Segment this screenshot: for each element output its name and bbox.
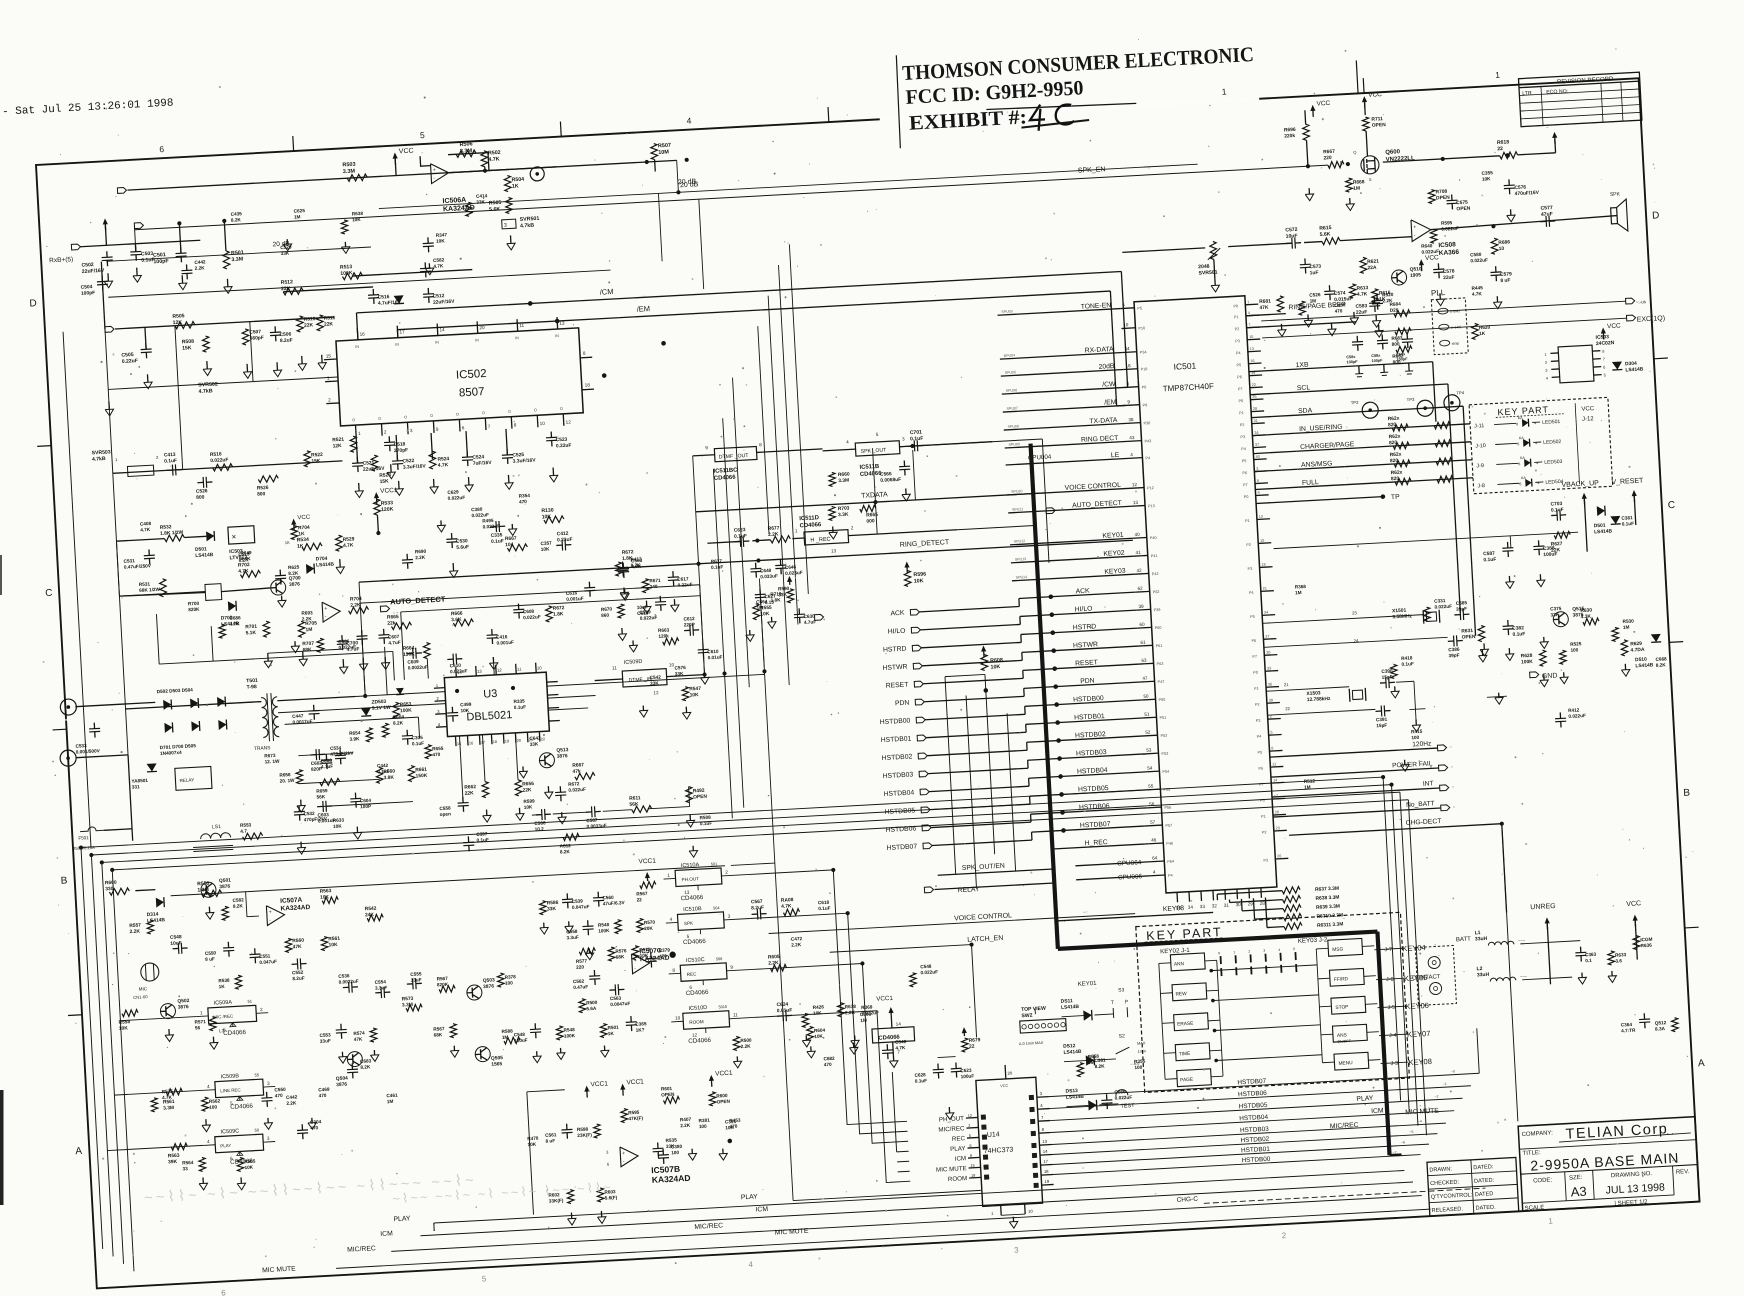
svg-text:1M: 1M [1353, 186, 1360, 192]
svg-text:7: 7 [1603, 357, 1605, 361]
svg-text:15K: 15K [182, 345, 192, 352]
svg-text:R560: R560 [292, 938, 304, 945]
svg-text:47K(F): 47K(F) [628, 1115, 643, 1121]
svg-text:4: 4 [1534, 421, 1536, 425]
svg-text:P39: P39 [1154, 608, 1161, 612]
svg-text:R599: R599 [523, 798, 535, 804]
svg-text:R659: R659 [316, 788, 328, 794]
svg-text:24: 24 [1264, 611, 1268, 615]
svg-text:47K: 47K [1259, 305, 1269, 312]
svg-text:68K: 68K [616, 954, 625, 959]
svg-text:T: T [1111, 1000, 1114, 1006]
svg-text:470: 470 [432, 752, 440, 757]
svg-text:J-12: J-12 [1582, 416, 1595, 423]
svg-text:ZD503: ZD503 [371, 699, 386, 706]
svg-text:C574: C574 [1334, 290, 1346, 297]
svg-text:VCC: VCC [1581, 406, 1595, 413]
svg-text:C624: C624 [776, 1002, 788, 1009]
svg-text:C575: C575 [1456, 200, 1468, 207]
svg-text:10K: 10K [527, 1142, 536, 1147]
svg-text:~: ~ [1372, 974, 1374, 978]
svg-text:KEY07: KEY07 [1407, 1029, 1431, 1039]
svg-text:3.3uF: 3.3uF [566, 935, 579, 941]
svg-text:P4: P4 [1145, 456, 1150, 460]
svg-text:R705: R705 [305, 620, 317, 627]
svg-text:1uF: 1uF [1310, 270, 1319, 276]
svg-text:P2: P2 [1262, 830, 1267, 834]
svg-text:9.1V 1W: 9.1V 1W [372, 705, 391, 712]
svg-text:SPU13: SPU13 [1015, 557, 1027, 562]
svg-text:~2: ~2 [1434, 1095, 1438, 1099]
svg-text:16: 16 [469, 741, 473, 745]
svg-text:10M: 10M [658, 149, 669, 156]
svg-text:C618: C618 [818, 900, 830, 906]
svg-text:0.022uF: 0.022uF [1568, 713, 1586, 719]
svg-text:1K: 1K [285, 540, 290, 545]
svg-text:1.8K 1/2W: 1.8K 1/2W [160, 530, 184, 537]
svg-text:B: B [60, 875, 68, 886]
svg-text:CD4066: CD4066 [230, 1103, 254, 1111]
svg-text:X1503: X1503 [1306, 690, 1321, 697]
svg-text:15: 15 [326, 353, 332, 358]
svg-text:15: 15 [1260, 539, 1264, 543]
svg-text:3: 3 [1256, 467, 1258, 471]
svg-text:6: 6 [969, 1144, 971, 1148]
svg-text:C630: C630 [803, 614, 815, 620]
svg-text:C642: C642 [529, 735, 541, 741]
svg-text:R611: R611 [629, 795, 641, 802]
svg-text:47K: 47K [354, 1037, 363, 1042]
svg-text:0.022uF: 0.022uF [1434, 604, 1452, 610]
svg-text:C582: C582 [232, 897, 244, 903]
svg-text:C564: C564 [756, 599, 768, 605]
svg-text:5.6A: 5.6A [586, 1006, 597, 1012]
svg-text:J-10: J-10 [1475, 443, 1486, 450]
svg-text:SPU14: SPU14 [1016, 575, 1028, 580]
svg-text:5010: 5010 [718, 1005, 727, 1009]
svg-text:8.2uF: 8.2uF [292, 976, 305, 982]
svg-text:8.2K: 8.2K [560, 849, 571, 855]
svg-text:508: 508 [716, 957, 723, 961]
svg-text:100pF: 100pF [1346, 360, 1358, 365]
svg-text:37: 37 [1255, 443, 1259, 447]
svg-text:R426: R426 [813, 1004, 825, 1010]
svg-text:DBL5021: DBL5021 [466, 709, 512, 723]
svg-text:32: 32 [1212, 903, 1218, 908]
svg-text:220: 220 [576, 964, 584, 969]
svg-text:B: B [1683, 787, 1691, 798]
svg-text:ICM: ICM [955, 1155, 967, 1163]
svg-text:O: O [508, 410, 511, 414]
svg-text:CD4066: CD4066 [223, 1029, 247, 1037]
svg-text:R637: R637 [711, 558, 723, 564]
svg-text:C331: C331 [1434, 598, 1446, 604]
svg-text:10: 10 [540, 421, 546, 426]
svg-text:C587: C587 [1483, 551, 1495, 558]
svg-text:C554: C554 [375, 979, 387, 985]
svg-text:10K: 10K [814, 1034, 823, 1039]
svg-text:23K(F): 23K(F) [577, 1132, 592, 1138]
svg-text:R668: R668 [1353, 179, 1365, 186]
svg-text:U3: U3 [483, 688, 498, 701]
svg-text:SVR501: SVR501 [520, 216, 540, 223]
svg-text:P41: P41 [1151, 554, 1158, 558]
svg-text:O: O [430, 414, 433, 418]
svg-text:30: 30 [1266, 650, 1270, 654]
svg-text:C686: C686 [229, 615, 241, 621]
svg-text:820: 820 [1390, 458, 1399, 464]
svg-text:J-9: J-9 [1476, 463, 1484, 469]
svg-text:4.7K: 4.7K [488, 156, 500, 163]
svg-text:39pF: 39pF [1448, 653, 1459, 659]
svg-text:R701: R701 [245, 624, 257, 631]
svg-text:0.23uF: 0.23uF [557, 537, 573, 544]
svg-text:39K: 39K [168, 1159, 178, 1166]
svg-text:33uH: 33uH [1475, 936, 1488, 943]
svg-text:R640: R640 [1421, 243, 1433, 249]
svg-text:P3: P3 [1256, 719, 1261, 723]
svg-text:ACK: ACK [890, 610, 905, 618]
svg-text:C542: C542 [650, 675, 662, 681]
svg-text:560pF: 560pF [250, 335, 264, 342]
svg-text:VCC: VCC [297, 515, 311, 522]
svg-text:6: 6 [1603, 365, 1605, 369]
svg-text:4.7K: 4.7K [1357, 291, 1368, 298]
svg-text:LS414B: LS414B [1061, 1004, 1080, 1011]
svg-text:C58x: C58x [1396, 352, 1406, 357]
svg-text:R696: R696 [1284, 127, 1296, 134]
svg-text:0.1uF: 0.1uF [412, 741, 425, 747]
svg-text:C548: C548 [514, 1032, 526, 1038]
svg-text:4.7K: 4.7K [238, 568, 249, 575]
svg-text:3876: 3876 [336, 1082, 347, 1089]
svg-text:SPU10: SPU10 [1011, 489, 1023, 494]
svg-text:C472: C472 [791, 936, 803, 942]
svg-text:33K: 33K [476, 199, 485, 204]
svg-text:R590: R590 [778, 586, 790, 592]
svg-text:R679: R679 [969, 1037, 981, 1044]
svg-text:26: 26 [1277, 854, 1281, 858]
svg-text:33K: 33K [281, 251, 290, 256]
svg-text:LS414B: LS414B [1625, 366, 1644, 373]
svg-text:10K: 10K [119, 1025, 129, 1032]
svg-text:REW: REW [1175, 991, 1187, 998]
svg-text:8.2uF: 8.2uF [751, 905, 764, 912]
svg-text:R636: R636 [1640, 943, 1652, 949]
svg-text:42: 42 [1136, 568, 1142, 573]
svg-text:P18: P18 [1141, 367, 1148, 371]
svg-text:LS414B: LS414B [147, 917, 166, 924]
svg-text:KA324AD: KA324AD [652, 1173, 691, 1185]
svg-text:R661: R661 [415, 767, 427, 774]
svg-text:C512: C512 [433, 293, 445, 300]
svg-text:C703: C703 [1550, 501, 1562, 508]
svg-text:TP4: TP4 [1456, 390, 1465, 395]
svg-text:+: + [1413, 224, 1416, 230]
svg-text:~: ~ [1373, 1002, 1375, 1006]
svg-text:220P: 220P [684, 622, 695, 628]
svg-text:8.2uF: 8.2uF [280, 337, 293, 344]
svg-text:P63: P63 [1157, 662, 1164, 666]
svg-text:VCC: VCC [1316, 100, 1330, 108]
svg-text:DS11: DS11 [1061, 998, 1074, 1005]
svg-text:R62x: R62x [1390, 452, 1402, 459]
svg-text:O: O [378, 417, 381, 421]
svg-text:J-4: J-4 [1389, 1033, 1397, 1039]
svg-text:0.023uF: 0.023uF [785, 570, 803, 576]
svg-text:0.1uF: 0.1uF [141, 257, 155, 264]
svg-text:C381: C381 [1621, 515, 1633, 521]
svg-text:Q502: Q502 [177, 998, 190, 1005]
svg-text:1M: 1M [860, 1018, 867, 1023]
svg-text:P0: P0 [1244, 495, 1249, 499]
svg-text:C603: C603 [317, 812, 329, 818]
svg-text:33: 33 [1200, 904, 1206, 909]
svg-text:C648: C648 [760, 568, 772, 574]
svg-text:LED503: LED503 [1544, 459, 1563, 466]
svg-text:OPEN: OPEN [1456, 206, 1471, 213]
svg-text:P57: P57 [1165, 824, 1172, 828]
svg-text:60: 60 [1139, 622, 1145, 627]
svg-text:P4: P4 [1236, 351, 1241, 355]
svg-text:100uF: 100uF [961, 1073, 975, 1079]
svg-text:R596: R596 [913, 571, 926, 578]
svg-text:R508: R508 [699, 815, 711, 821]
svg-text:GND: GND [1542, 672, 1558, 680]
svg-text:41: 41 [1135, 550, 1141, 555]
svg-text:10K: 10K [320, 894, 330, 901]
svg-text:11: 11 [733, 1012, 738, 1017]
svg-text:C558: C558 [439, 806, 451, 812]
svg-text:43: 43 [1129, 435, 1135, 440]
svg-text:16: 16 [1250, 359, 1254, 363]
svg-text:1M: 1M [1295, 590, 1302, 595]
svg-text:0.1uF: 0.1uF [476, 837, 489, 843]
svg-text:4.7K: 4.7K [438, 462, 449, 469]
svg-text:0.022uF: 0.022uF [482, 524, 500, 530]
svg-text:10K: 10K [914, 578, 924, 585]
svg-text:✕: ✕ [231, 535, 236, 541]
svg-text:P4: P4 [1168, 874, 1173, 878]
svg-text:150K: 150K [415, 773, 427, 780]
svg-text:PLAY: PLAY [950, 1145, 966, 1153]
svg-text:2.2K: 2.2K [195, 265, 206, 271]
svg-text:14: 14 [896, 1021, 902, 1026]
svg-text:P9: P9 [1143, 403, 1148, 407]
svg-text:20. 1W: 20. 1W [280, 778, 296, 784]
svg-text:1.3M: 1.3M [197, 887, 209, 894]
svg-text:R62x: R62x [1390, 470, 1402, 477]
svg-text:C305: C305 [411, 735, 423, 741]
svg-text:R672: R672 [568, 781, 580, 787]
svg-text:0.001uF: 0.001uF [566, 596, 584, 602]
svg-text:H _REC: H _REC [810, 537, 830, 544]
svg-text:KEY01: KEY01 [1078, 981, 1098, 988]
svg-text:P0: P0 [1238, 399, 1243, 403]
svg-text:100K: 100K [564, 1033, 576, 1039]
svg-text:3876: 3876 [219, 884, 230, 891]
svg-text:KEY05: KEY05 [1404, 973, 1428, 983]
svg-text:20: 20 [517, 739, 521, 743]
svg-text:2.2K: 2.2K [129, 929, 140, 936]
svg-text:120K: 120K [381, 506, 394, 513]
svg-text:ICM: ICM [755, 1206, 768, 1214]
svg-text:4.7: 4.7 [240, 828, 247, 833]
svg-text:8.3A: 8.3A [1655, 1026, 1666, 1032]
svg-text:IN: IN [515, 336, 519, 340]
svg-text:C573: C573 [1309, 264, 1321, 271]
svg-text:4.7K: 4.7K [781, 903, 792, 910]
svg-text:R666: R666 [451, 611, 463, 618]
svg-text:D: D [29, 298, 37, 309]
svg-text:2.2K: 2.2K [768, 960, 779, 967]
svg-text:C532: C532 [303, 811, 315, 817]
svg-text:0.022uF: 0.022uF [640, 615, 658, 621]
svg-text:R604: R604 [814, 1028, 826, 1034]
svg-text:C625: C625 [294, 208, 306, 214]
svg-text:18: 18 [493, 740, 497, 744]
svg-text:C668: C668 [1655, 656, 1667, 662]
svg-text:20 dB: 20 dB [680, 181, 699, 189]
svg-text:470: 470 [659, 954, 667, 959]
svg-text:R677: R677 [768, 525, 780, 532]
svg-text:P2: P2 [1255, 703, 1260, 707]
svg-text:0.022uF: 0.022uF [471, 512, 489, 518]
svg-text:R563: R563 [168, 1153, 180, 1160]
svg-text:O: O [482, 411, 485, 415]
svg-text:13: 13 [684, 890, 690, 895]
svg-text:+: + [324, 606, 327, 612]
svg-text:4.7uF: 4.7uF [321, 764, 334, 770]
svg-text:9: 9 [1257, 491, 1259, 495]
svg-text:1K: 1K [219, 984, 226, 989]
svg-text:P3: P3 [1235, 339, 1240, 343]
svg-text:R412: R412 [1568, 707, 1580, 713]
svg-text:P1: P1 [1254, 687, 1259, 691]
svg-text:0.023uF: 0.023uF [450, 668, 468, 674]
svg-text:23: 23 [1276, 826, 1280, 830]
svg-text:TP3: TP3 [1407, 397, 1416, 402]
svg-text:31: 31 [1224, 903, 1230, 908]
svg-text:LS414B: LS414B [1594, 528, 1613, 535]
svg-text:8.2K: 8.2K [360, 1064, 371, 1070]
svg-text:12: 12 [566, 419, 572, 424]
svg-text:12: 12 [692, 1032, 698, 1037]
svg-text:R561: R561 [328, 936, 340, 943]
svg-text:C604: C604 [360, 798, 372, 804]
svg-text:R686: R686 [1498, 239, 1510, 246]
svg-text:ICGM: ICGM [1640, 937, 1653, 943]
svg-text:100: 100 [1411, 735, 1419, 740]
svg-text:6: 6 [1516, 422, 1518, 426]
svg-text:ECO NO:: ECO NO: [1546, 89, 1568, 96]
svg-text:KEY08: KEY08 [1408, 1057, 1432, 1067]
svg-text:R378: R378 [504, 974, 516, 980]
svg-text:R681: R681 [1259, 298, 1271, 305]
svg-text:LTR: LTR [1522, 90, 1532, 97]
svg-text:D314: D314 [147, 911, 159, 918]
svg-text:100pF: 100pF [153, 258, 169, 265]
svg-text:1K: 1K [1479, 331, 1486, 336]
svg-text:C375: C375 [1550, 606, 1562, 612]
svg-text:P60: P60 [1155, 626, 1162, 630]
svg-text:CD4066: CD4066 [680, 894, 704, 902]
svg-text:Q503: Q503 [483, 977, 496, 984]
svg-text:OPEN: OPEN [661, 1092, 675, 1098]
svg-text:R567: R567 [433, 1026, 445, 1032]
svg-text:SZE:: SZE: [1569, 1175, 1583, 1182]
svg-text:~6: ~6 [1401, 1140, 1405, 1144]
svg-text:C580: C580 [1470, 252, 1482, 258]
svg-text:180uF: 180uF [514, 1038, 528, 1044]
svg-text:CODE:: CODE: [1533, 1177, 1553, 1184]
svg-text:CD4066: CD4066 [683, 938, 707, 946]
svg-text:+: + [433, 167, 436, 173]
svg-text:1K: 1K [297, 543, 304, 549]
svg-text:34: 34 [1188, 905, 1194, 910]
svg-text:100: 100 [671, 1150, 679, 1155]
svg-text:13: 13 [831, 548, 837, 553]
svg-text:C522: C522 [402, 458, 414, 465]
svg-text:LS414B: LS414B [316, 562, 335, 569]
svg-text:0.01uF: 0.01uF [777, 1007, 793, 1014]
svg-text:10K: 10K [542, 514, 552, 521]
svg-text:O: O [534, 408, 537, 412]
svg-text:KA: KA [1518, 416, 1524, 420]
svg-text:R656: R656 [522, 781, 534, 788]
svg-text:PH.OUT: PH.OUT [681, 876, 699, 882]
svg-text:0.22uF: 0.22uF [556, 443, 572, 450]
svg-text:4.7K: 4.7K [140, 527, 151, 533]
svg-text:1.8K: 1.8K [553, 611, 564, 618]
svg-text:R535: R535 [665, 1137, 677, 1143]
svg-text:ON/OFF: ON/OFF [1337, 1039, 1352, 1044]
svg-text:C583: C583 [1355, 303, 1367, 310]
svg-text:C388: C388 [1543, 545, 1555, 552]
svg-text:SPU08: SPU08 [1007, 424, 1019, 429]
svg-text:SPU07: SPU07 [1007, 406, 1019, 411]
svg-text:P4: P4 [1257, 735, 1262, 739]
svg-text:R562: R562 [209, 1098, 221, 1104]
svg-text:0.01uF: 0.01uF [707, 654, 722, 660]
svg-text:9: 9 [970, 1154, 972, 1158]
svg-text:P3: P3 [1248, 567, 1253, 571]
svg-text:8.2K: 8.2K [1656, 662, 1667, 668]
svg-text:P5: P5 [1137, 306, 1142, 310]
svg-text:MIC/REC: MIC/REC [938, 1125, 965, 1133]
svg-text:470: 470 [275, 1093, 283, 1098]
svg-text:C58x: C58x [1371, 354, 1381, 359]
svg-text:10K: 10K [524, 804, 533, 809]
svg-text:C610: C610 [707, 649, 719, 655]
svg-text:TP2: TP2 [1351, 400, 1360, 405]
svg-text:C524: C524 [472, 454, 484, 461]
svg-text:R62x: R62x [1388, 416, 1400, 423]
svg-text:RxB+(5): RxB+(5) [49, 256, 73, 264]
svg-text:28: 28 [1253, 407, 1257, 411]
svg-text:C442: C442 [194, 259, 206, 265]
svg-text:12: 12 [1132, 482, 1138, 487]
svg-text:A: A [75, 1146, 83, 1157]
svg-text:C58x: C58x [1346, 355, 1356, 360]
svg-text:R531: R531 [139, 581, 151, 587]
svg-text:56K: 56K [629, 801, 639, 808]
svg-text:5.6(F): 5.6(F) [605, 1195, 618, 1201]
svg-text:~: ~ [1376, 1058, 1378, 1062]
svg-text:C567: C567 [751, 899, 763, 906]
svg-text:~1: ~1 [1443, 1082, 1447, 1086]
svg-text:61: 61 [1140, 640, 1146, 645]
